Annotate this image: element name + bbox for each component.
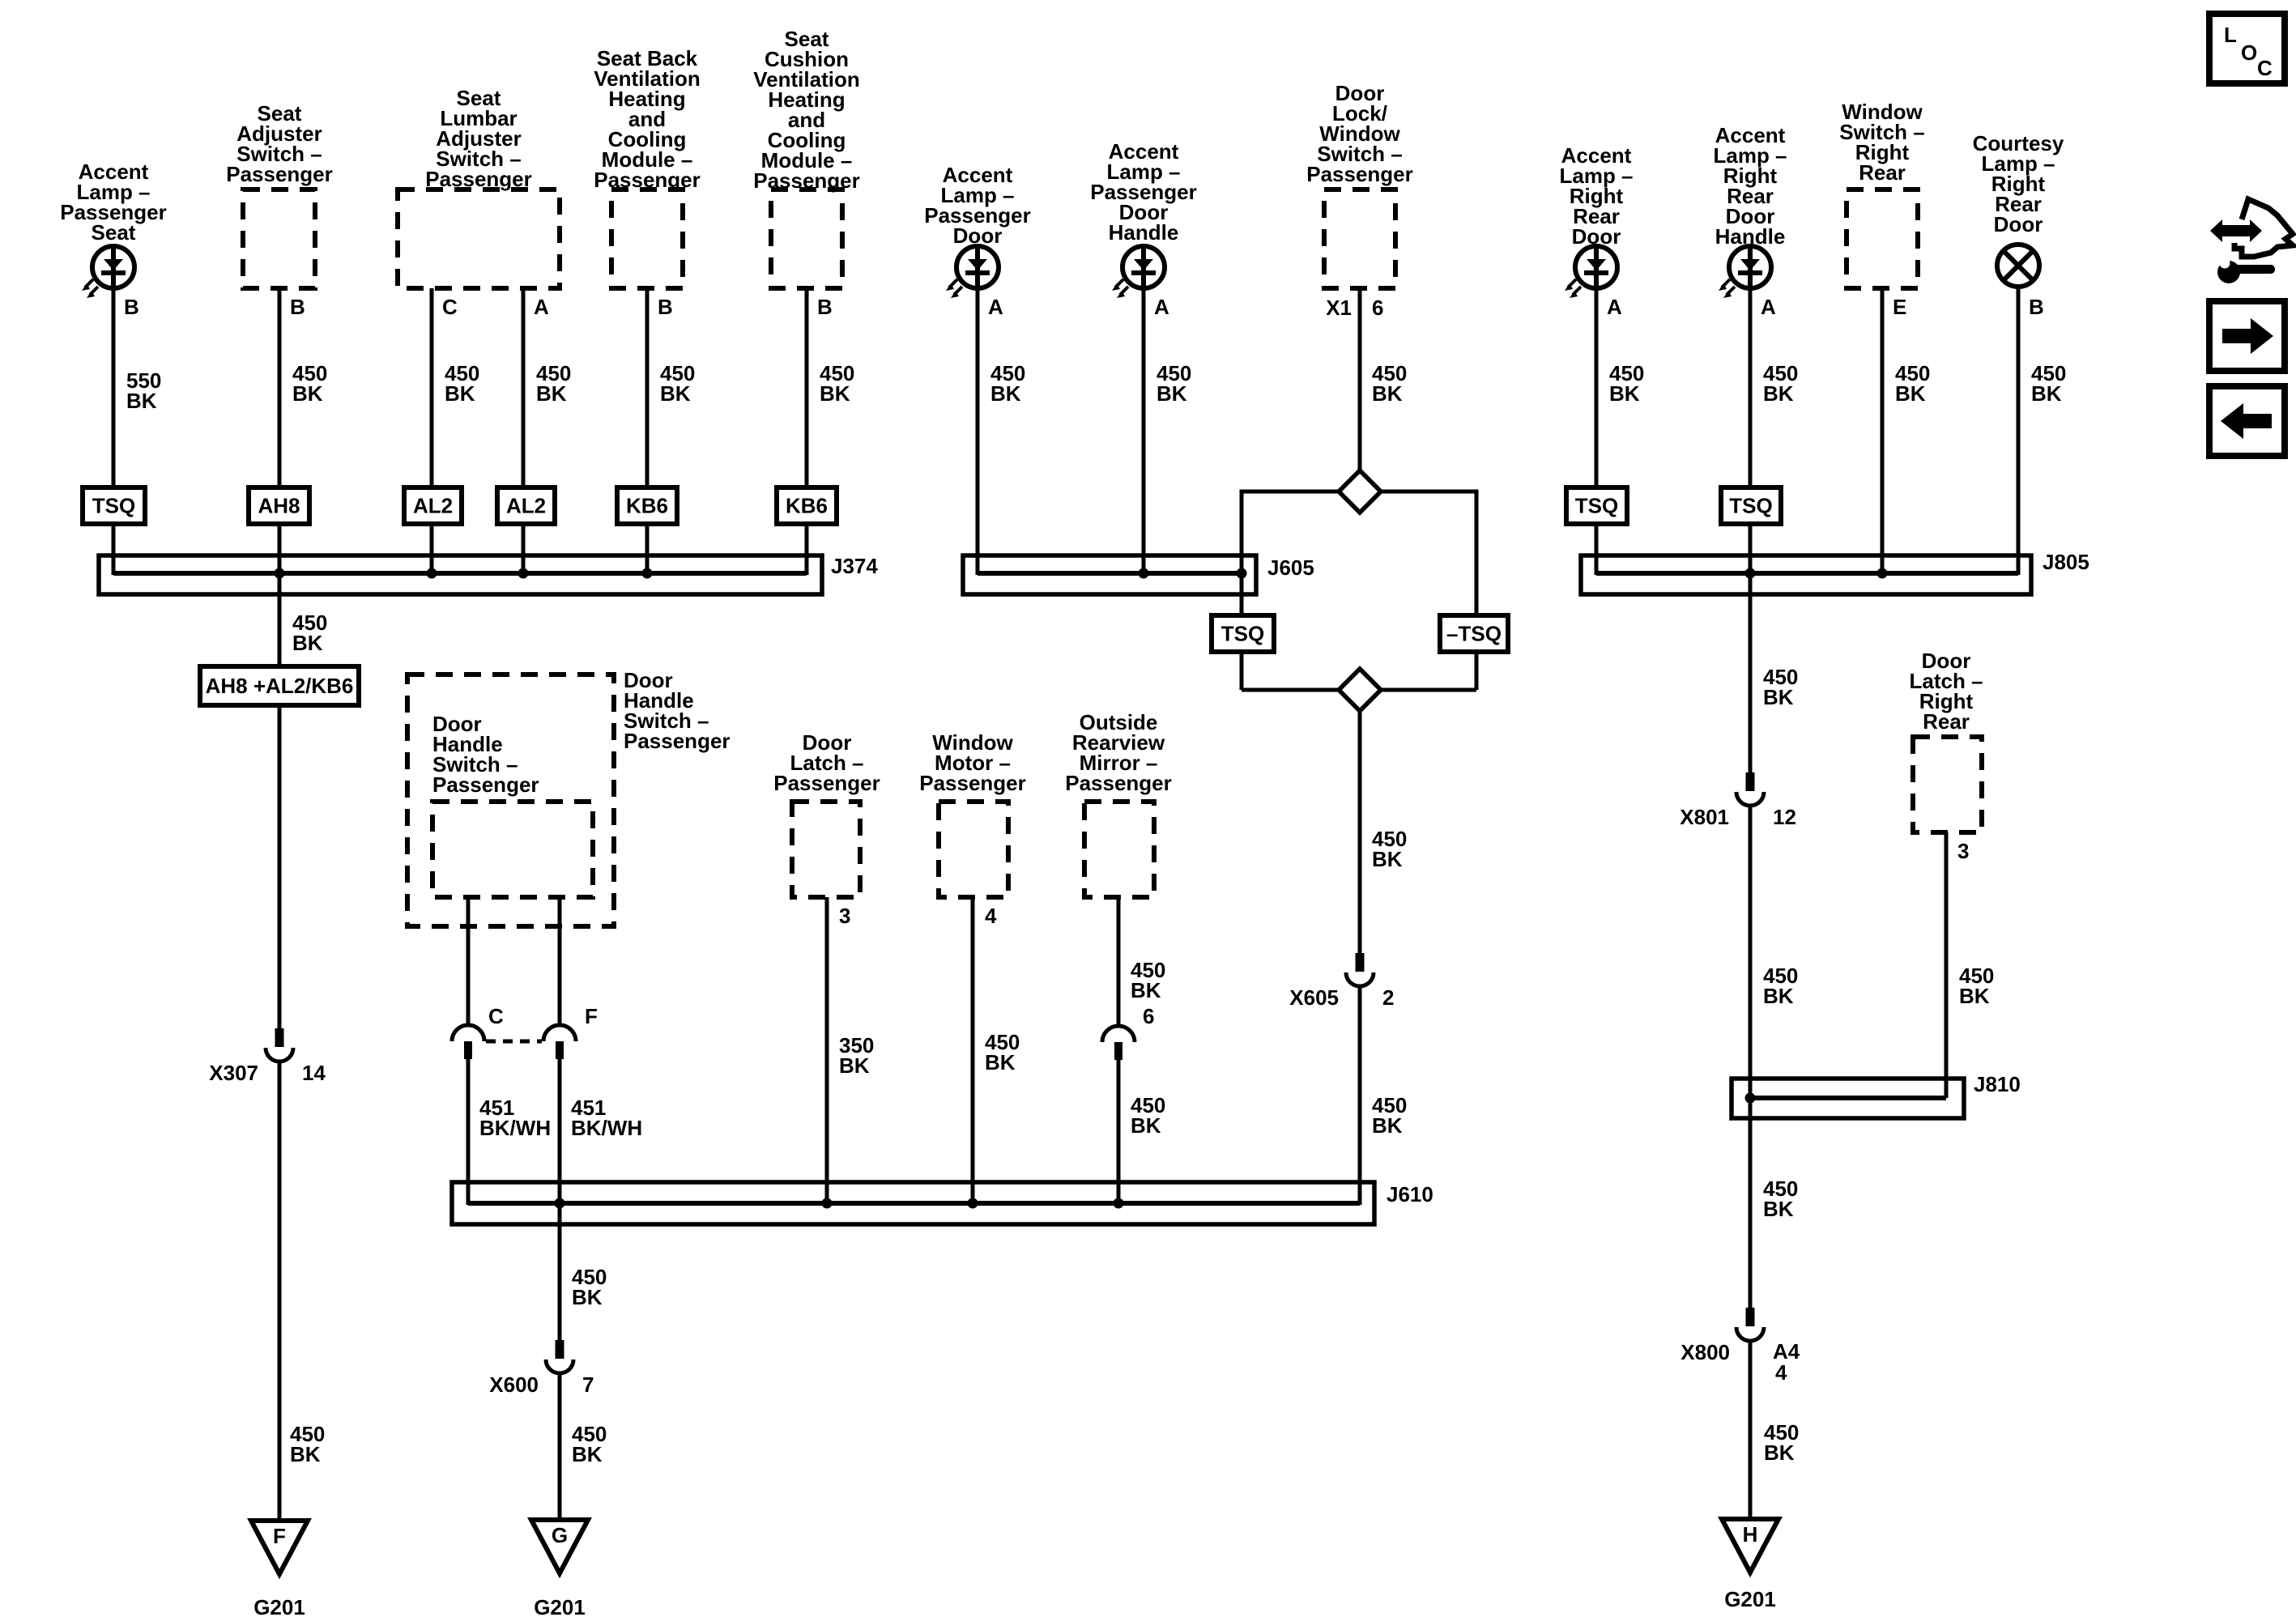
svg-text:BK/WH: BK/WH [479, 1116, 551, 1140]
inline connector C [452, 1025, 484, 1059]
wire 450 BK from X801 through J810 [1749, 806, 1753, 1308]
svg-text:BK: BK [1131, 1113, 1161, 1138]
option code box AH8 [249, 487, 309, 524]
component A5: Door Latch - Right Rear (dashed) [1913, 737, 1982, 832]
wire 450 BK from Door Latch Right Rear to J810 [1945, 832, 1949, 1098]
wire from TSQ to bottom diamond [1240, 652, 1244, 690]
wire from inner switch to connector F [558, 897, 562, 1025]
wire 450 BK from mirror connector to J610 [1117, 1060, 1121, 1203]
wire 451 BK/WH from connector F through J610 [558, 1059, 562, 1340]
inline connector X800 pin A4 [1736, 1308, 1764, 1341]
svg-text:Passenger: Passenger [1306, 162, 1413, 186]
component S4: Door Lock/Window Switch - Passenger (dashed) [1324, 189, 1395, 288]
svg-text:BK: BK [2031, 381, 2062, 406]
svg-text:J610: J610 [1387, 1182, 1433, 1206]
svg-text:J605: J605 [1267, 555, 1314, 580]
svg-text:12: 12 [1773, 805, 1796, 829]
svg-text:BK: BK [445, 381, 475, 406]
svg-text:X1: X1 [1326, 296, 1352, 320]
wire AL2 to J374 [430, 524, 434, 575]
svg-text:BK: BK [572, 1442, 603, 1466]
lamp E2: Accent Lamp - Passenger Door [946, 246, 999, 298]
wire 350 BK from Door Latch to J610 [825, 897, 829, 1203]
svg-text:BK: BK [1763, 984, 1794, 1008]
svg-text:3: 3 [839, 904, 850, 928]
svg-text:4: 4 [985, 904, 997, 928]
wire 450 BK from Lumbar pin A to AL2 [522, 288, 526, 487]
wire KB6 to J374 [645, 524, 650, 575]
wire 451 BK/WH from connector C to J610 [466, 1059, 471, 1205]
svg-text:F: F [273, 1524, 286, 1548]
svg-text:BK: BK [990, 381, 1021, 406]
wire 450 BK from lamp to TSQ [1749, 288, 1753, 487]
wire from AH8+AL2/KB6 box to connector X307 [278, 705, 282, 1028]
svg-text:BK: BK [292, 381, 323, 406]
wire from top diamond right to -TSQ branch [1381, 490, 1476, 494]
dashed link between connectors C and F [486, 1040, 542, 1044]
svg-text:Handle: Handle [1109, 220, 1179, 245]
svg-text:Door: Door [1994, 212, 2043, 236]
option code box TSQ (right rear door) [1566, 487, 1627, 524]
svg-text:A: A [1761, 295, 1776, 319]
svg-text:14: 14 [302, 1061, 326, 1085]
wire 450 BK from X307 to ground F [278, 1062, 282, 1521]
option code box KB6 (second) [777, 487, 837, 524]
svg-text:Passenger: Passenger [432, 772, 539, 797]
lamp E3: Accent Lamp - Passenger Door Handle [1112, 246, 1165, 298]
svg-text:6: 6 [1372, 296, 1383, 320]
svg-text:G201: G201 [1724, 1587, 1776, 1611]
component S2: Seat Lumbar Adjuster Switch - Passenger (dashed) [398, 189, 560, 288]
wire 450 BK from switch E to J805 [1881, 288, 1885, 575]
forward arrow navigation box [2209, 301, 2285, 371]
ground symbol H [1722, 1519, 1778, 1572]
svg-text:L: L [2224, 23, 2237, 47]
svg-text:X307: X307 [209, 1061, 258, 1085]
wire 450 BK from X605 to J610 [1358, 986, 1362, 1205]
wire 450 BK from courtesy lamp to J805 [2017, 287, 2021, 575]
svg-text:BK: BK [1372, 1113, 1403, 1138]
component A3: Door Latch - Passenger (dashed) [792, 802, 860, 897]
svg-text:BK: BK [660, 381, 691, 406]
wire from top diamond left to TSQ branch [1242, 490, 1339, 494]
svg-text:3: 3 [1957, 839, 1969, 863]
option code box AH8 +AL2/KB6 [200, 666, 359, 705]
wire 450 BK from module B to KB6 [805, 288, 809, 487]
svg-text:BK: BK [985, 1050, 1016, 1074]
ground symbol G [531, 1520, 588, 1573]
svg-text:B: B [124, 295, 139, 319]
svg-text:X801: X801 [1680, 805, 1729, 829]
component M1: Window Motor - Passenger (dashed) [939, 802, 1008, 897]
svg-text:BK: BK [839, 1053, 870, 1078]
back arrow navigation box [2209, 386, 2285, 456]
wire TSQ to splice pack J374 [112, 524, 116, 575]
option code box AL2 (first) [404, 487, 462, 524]
wire from -TSQ to bottom diamond [1475, 652, 1479, 690]
option code box TSQ (right rear door handle) [1721, 487, 1781, 524]
wire 450 BK from Seat Adjuster Switch B to AH8 [278, 288, 282, 487]
svg-text:A: A [534, 295, 549, 319]
option code box TSQ (left) [83, 487, 145, 524]
option code box -TSQ [1440, 615, 1508, 652]
svg-text:7: 7 [582, 1372, 594, 1397]
svg-text:X600: X600 [489, 1372, 539, 1397]
svg-text:J374: J374 [831, 554, 878, 578]
option code box TSQ (in diamond loop) [1212, 615, 1274, 652]
wire from inner switch to connector C [466, 897, 471, 1025]
inline connector X605 pin 2 [1346, 953, 1374, 986]
svg-text:2: 2 [1382, 985, 1394, 1010]
splice pack J610 [452, 1182, 1374, 1224]
splice pack J805 [1581, 555, 2031, 594]
svg-text:6: 6 [1143, 1004, 1154, 1028]
svg-text:KB6: KB6 [626, 494, 668, 518]
wire TSQ to J805 [1595, 524, 1599, 575]
lamp E1: Accent Lamp - Passenger Seat [82, 246, 134, 298]
svg-text:X800: X800 [1680, 1340, 1730, 1364]
svg-text:Rear: Rear [1859, 160, 1906, 185]
svg-text:Passenger: Passenger [773, 771, 880, 795]
wire 450 BK from X800 to ground H [1749, 1341, 1753, 1519]
svg-text:H: H [1743, 1522, 1758, 1547]
wire 450 BK from Lumbar pin C to AL2 [430, 288, 434, 487]
svg-text:BK: BK [290, 1442, 321, 1466]
svg-text:KB6: KB6 [786, 494, 828, 518]
svg-text:X605: X605 [1289, 985, 1339, 1010]
svg-text:B: B [290, 295, 305, 319]
svg-text:TSQ: TSQ [92, 494, 135, 518]
wire KB6 to J374 [805, 524, 809, 575]
svg-text:BK: BK [1131, 978, 1161, 1002]
option code box AL2 (second) [497, 487, 555, 524]
splice pack J374 [99, 555, 822, 594]
diamond node (top) [1339, 470, 1381, 513]
svg-text:G: G [552, 1523, 568, 1547]
svg-text:BK: BK [820, 381, 850, 406]
lamp E4: Accent Lamp - Right Rear Door [1565, 246, 1617, 298]
svg-text:AL2: AL2 [413, 494, 453, 518]
svg-text:4: 4 [1775, 1360, 1787, 1385]
svg-text:F: F [585, 1004, 598, 1028]
svg-text:B: B [817, 295, 833, 319]
lamp E5: Accent Lamp - Right Rear Door Handle [1719, 246, 1771, 298]
svg-text:BK: BK [1763, 1197, 1794, 1221]
svg-text:A: A [1607, 295, 1622, 319]
svg-text:BK: BK [1609, 381, 1640, 406]
svg-text:AH8: AH8 [258, 494, 300, 518]
svg-text:J805: J805 [2043, 550, 2089, 574]
inline connector X600 pin 7 [546, 1340, 573, 1373]
svg-text:Passenger: Passenger [624, 729, 731, 753]
svg-text:B: B [658, 295, 673, 319]
svg-text:BK: BK [1959, 984, 1990, 1008]
wire 450 BK from module B to KB6 [645, 288, 650, 487]
svg-text:G201: G201 [253, 1595, 305, 1617]
svg-text:Passenger: Passenger [226, 162, 333, 186]
svg-text:A: A [988, 295, 1003, 319]
inline connector X801 pin 12 [1736, 772, 1764, 806]
svg-text:AL2: AL2 [506, 494, 546, 518]
svg-text:E: E [1893, 295, 1906, 319]
svg-text:BK: BK [536, 381, 567, 406]
svg-text:TSQ: TSQ [1729, 494, 1772, 518]
diamond node (bottom) [1339, 669, 1381, 711]
component A2: Seat Cushion Ventilation Heating and Cooling Module (dashed) [771, 189, 842, 288]
wire 450 BK from Window Motor to J610 [971, 897, 975, 1203]
svg-text:BK: BK [1763, 381, 1794, 406]
svg-text:J810: J810 [1974, 1072, 2021, 1096]
svg-text:BK: BK [1157, 381, 1187, 406]
svg-text:B: B [2029, 295, 2044, 319]
LOC legend box [2209, 14, 2285, 83]
svg-text:A: A [1154, 295, 1169, 319]
inner switch box of Door Handle Switch (dashed) [432, 802, 593, 897]
svg-text:C: C [2257, 56, 2273, 80]
svg-text:Seat: Seat [92, 220, 136, 245]
svg-text:Rear: Rear [1923, 709, 1970, 734]
component A4: Outside Rearview Mirror - Passenger (dashed) [1084, 802, 1154, 897]
svg-text:O: O [2241, 40, 2257, 65]
svg-text:BK: BK [292, 631, 323, 655]
svg-text:–TSQ: –TSQ [1446, 622, 1502, 646]
svg-text:C: C [442, 295, 458, 319]
wire TSQ through J805 to lower branch [1749, 524, 1753, 772]
component S3 outer housing: Door Handle Switch - Passenger (dashed) [407, 674, 614, 926]
wire 550 BK from lamp B to TSQ [112, 288, 116, 487]
wire AL2 to J374 (second) [522, 524, 526, 575]
wire 450 BK from switch pin 6 to diamond node [1358, 288, 1362, 470]
inline connector at mirror pin 6 [1102, 1026, 1135, 1060]
component S1: Seat Adjuster Switch - Passenger (dashed) [243, 189, 315, 288]
splice pack J605 [963, 555, 1256, 594]
svg-text:Passenger: Passenger [1065, 771, 1172, 795]
svg-text:G201: G201 [534, 1595, 586, 1617]
lamp E6: Courtesy Lamp - Right Rear Door [1997, 245, 2039, 287]
inline connector X307 pin 14 [266, 1028, 293, 1062]
wire 450 BK from bottom diamond to X605 [1358, 711, 1362, 953]
inline connector F [543, 1025, 576, 1059]
wire 450 BK from X600 to ground G [558, 1373, 562, 1520]
svg-text:BK: BK [1372, 381, 1403, 406]
svg-text:BK: BK [1764, 1440, 1795, 1465]
svg-text:C: C [488, 1004, 504, 1028]
svg-text:BK: BK [126, 389, 157, 413]
wire 450 BK from mirror to connector 6 [1117, 897, 1121, 1026]
component A1: Seat Back Ventilation Heating and Cooling Module (dashed) [611, 189, 683, 288]
wire 450 BK from lamp to J605 [976, 288, 980, 575]
svg-text:BK: BK [1372, 847, 1403, 871]
splice pack J810 [1732, 1079, 1964, 1118]
option code box KB6 (first) [617, 487, 677, 524]
svg-text:BK: BK [1763, 685, 1794, 709]
svg-text:TSQ: TSQ [1575, 494, 1618, 518]
svg-text:BK: BK [1895, 381, 1926, 406]
svg-text:AH8 +AL2/KB6: AH8 +AL2/KB6 [206, 674, 354, 698]
svg-text:TSQ: TSQ [1221, 622, 1264, 646]
ground symbol F [251, 1521, 308, 1574]
svg-text:Passenger: Passenger [919, 771, 1026, 795]
wire 450 BK from lamp to J605 [1142, 288, 1146, 575]
svg-text:BK/WH: BK/WH [571, 1116, 642, 1140]
svg-text:BK: BK [572, 1285, 603, 1309]
wire 450 BK from lamp to TSQ [1595, 288, 1599, 487]
power flow icon: glove with two-way arrow and wrench [2210, 199, 2293, 283]
wire AH8 to splice pack J374, through splice to lower branch [278, 524, 282, 666]
component S5: Window Switch - Right Rear (dashed) [1847, 189, 1918, 288]
